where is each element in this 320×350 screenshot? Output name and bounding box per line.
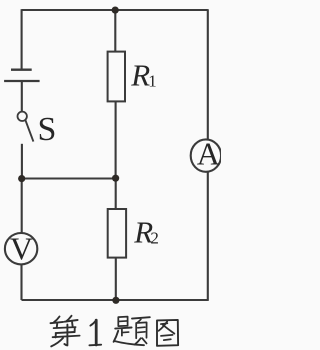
switch S blade (open) [25, 120, 33, 142]
caption char 1: DI (第) left-falling stroke [51, 338, 63, 346]
wire left side: top corner to battery [21, 9, 23, 69]
wire middle branch node D to R1 [114, 10, 116, 52]
battery B1 short plate (top) [11, 69, 32, 71]
caption char 1: DI (第) bow body [54, 327, 76, 328]
caption char 3: TI (题) long right-falling bottom [114, 341, 144, 345]
svg-text:A: A [197, 135, 220, 171]
caption digit 1 [95, 320, 98, 345]
svg-text:V: V [10, 231, 33, 267]
caption char 3: TI (题) middle bar [115, 328, 131, 329]
caption char 4: TU (图) inner winter top strokes [159, 321, 168, 330]
node B junction dot (middle) [112, 175, 119, 182]
wire middle horizontal node A to node B [22, 177, 116, 179]
caption char 1: DI (第) bamboo radical right [66, 316, 71, 322]
caption char 3: TI (题) sun box [118, 317, 127, 327]
caption char 3: TI (题) page box [136, 322, 146, 338]
caption char 3: TI (题) page legs [135, 338, 141, 344]
wire ammeter to bottom corner [207, 171, 209, 301]
wire right side top corner to ammeter [207, 9, 209, 140]
svg-text:2: 2 [150, 229, 159, 248]
caption char 3: TI (题) page small falling stroke [137, 319, 141, 322]
wire switch lower contact to node A [21, 144, 23, 179]
caption char 4: TU (图) enclosure box [157, 320, 178, 346]
battery B1 long plate (bottom) [4, 80, 40, 82]
ammeter A1 circle [191, 139, 221, 171]
wire R2 to node C [115, 258, 117, 301]
wire battery to switch [21, 82, 23, 112]
caption char 3: TI (题) small vertical and bar [121, 329, 123, 336]
wire node A down to voltmeter [21, 179, 23, 234]
voltmeter V1 circle [5, 233, 37, 264]
svg-text:S: S [38, 111, 57, 148]
wire bottom horizontal [22, 299, 208, 301]
node D junction dot (top) [112, 7, 119, 14]
caption char 4: TU (图) inner winter bars [161, 335, 173, 336]
caption char 1: DI (第) bamboo radical left [54, 317, 60, 323]
caption char 1: DI (第) vertical hook [64, 325, 67, 346]
caption char 3: TI (题) page top bar [132, 317, 150, 318]
wire R1 to node B [115, 101, 117, 178]
switch S pivot circle [18, 112, 27, 121]
node A junction dot (left middle) [18, 175, 25, 182]
caption char 3: TI (题) left-falling sweep [114, 331, 119, 342]
svg-text:R: R [130, 58, 150, 93]
resistor R1 body [108, 52, 125, 102]
wire top horizontal [22, 9, 208, 11]
wire voltmeter to bottom corner [20, 264, 22, 300]
resistor R2 body [108, 209, 126, 258]
node C junction dot (bottom) [112, 297, 119, 304]
wire node B to R2 [115, 178, 117, 209]
svg-text:1: 1 [148, 72, 157, 91]
